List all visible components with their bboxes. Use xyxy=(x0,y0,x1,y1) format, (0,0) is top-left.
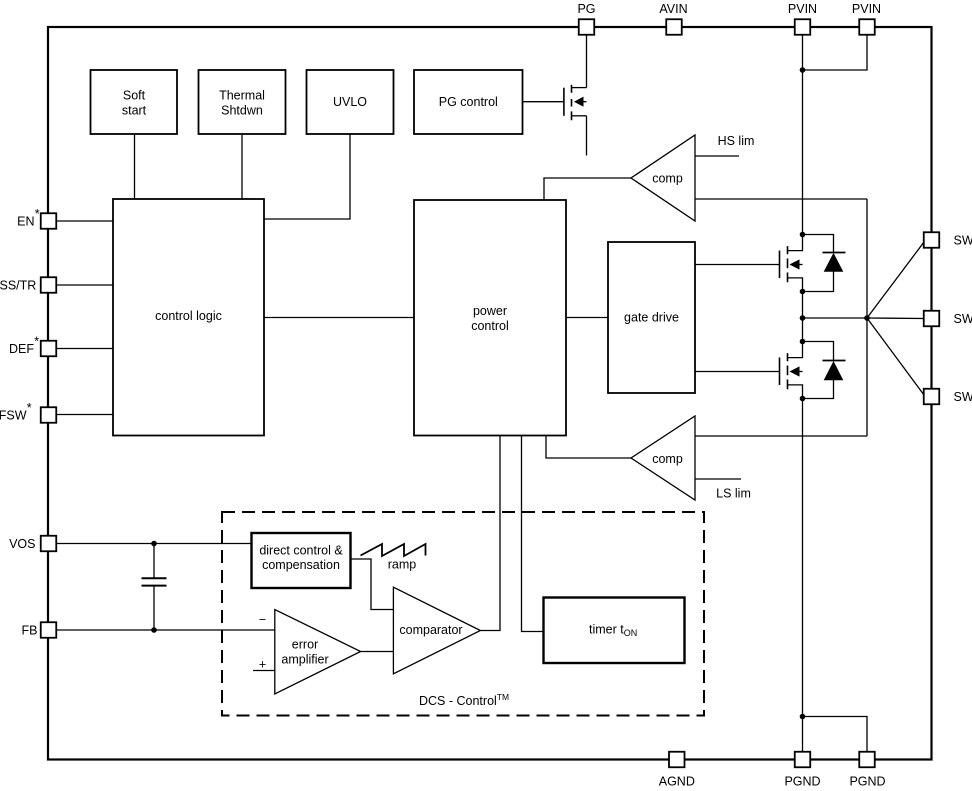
wire SW sense vertical xyxy=(866,199,868,436)
svg-text:EN: EN xyxy=(17,215,34,229)
svg-text:PGND: PGND xyxy=(784,775,820,789)
svg-text:LS lim: LS lim xyxy=(716,487,751,501)
pin PGND second xyxy=(859,752,875,768)
wire HS comp input from SW sense xyxy=(695,198,867,200)
junction Q2 drain xyxy=(800,232,806,238)
wire error amplifier output to comparator xyxy=(361,651,394,653)
wire switch node column xyxy=(802,292,804,342)
pin SS/TR xyxy=(41,277,57,293)
pin PVIN second xyxy=(859,19,875,35)
svg-text:FB: FB xyxy=(22,624,38,638)
svg-text:*: * xyxy=(35,207,40,221)
junction Q3 source xyxy=(800,396,806,402)
svg-text:SW: SW xyxy=(954,312,972,326)
svg-text:*: * xyxy=(34,335,39,349)
block UVLO xyxy=(307,70,394,134)
transistor Q1 PG MOSFET xyxy=(564,85,587,120)
transistor Q2 HS MOSFET xyxy=(780,235,803,292)
pin SW2 xyxy=(924,311,940,327)
wire EN pin to control logic xyxy=(56,220,113,222)
junction FB capacitor node xyxy=(151,627,157,633)
wire LS comp input from SW sense xyxy=(695,435,867,437)
wire PG control to Q1 gate xyxy=(523,101,564,103)
wire comparator output to power control xyxy=(480,436,500,631)
wire Q3 source to PGND xyxy=(802,399,804,752)
junction VOS capacitor node xyxy=(151,541,157,547)
svg-text:control: control xyxy=(471,319,509,333)
svg-text:PVIN: PVIN xyxy=(788,2,817,16)
wire Soft start to control logic xyxy=(134,135,136,199)
junction SW fan node xyxy=(864,315,870,321)
svg-text:FSW: FSW xyxy=(0,409,27,423)
junction PVIN net xyxy=(800,67,806,73)
wire HS comp output to power control xyxy=(544,178,631,200)
svg-text:PG control: PG control xyxy=(439,95,498,109)
DCS-Control dashed boundary xyxy=(222,512,704,716)
wire fan to SW3 xyxy=(867,318,924,395)
svg-text:+: + xyxy=(259,658,266,672)
junction Q3 drain xyxy=(800,339,806,345)
junction PGND net xyxy=(800,714,806,720)
pin PVIN xyxy=(795,19,811,35)
pin SW1 xyxy=(924,232,940,248)
wire control logic to power control xyxy=(264,317,414,319)
op-amp comparator xyxy=(393,587,480,674)
op-amp comp HS current limit xyxy=(631,135,695,221)
svg-text:AVIN: AVIN xyxy=(659,2,687,16)
wire switch node to SW fan xyxy=(803,317,868,319)
wire PGND branch to PGND2 xyxy=(803,717,868,752)
op-amp comp LS current limit xyxy=(631,416,695,500)
svg-text:comp: comp xyxy=(652,452,683,466)
svg-text:SS/TR: SS/TR xyxy=(0,279,36,293)
pin FB xyxy=(41,622,57,638)
pin FSW xyxy=(41,407,57,423)
svg-text:AGND: AGND xyxy=(659,775,695,789)
capacitor C1 between VOS and FB nets xyxy=(153,544,155,579)
svg-text:PGND: PGND xyxy=(849,775,885,789)
svg-text:DEF: DEF xyxy=(9,342,34,356)
svg-text:compensation: compensation xyxy=(262,558,340,572)
wire gate drive to Q3 gate xyxy=(695,371,780,373)
block power control xyxy=(414,200,566,436)
diode D3 body diode LS xyxy=(803,342,846,399)
wire fan to SW2 xyxy=(867,317,924,320)
wire FSW pin to control logic xyxy=(56,414,113,416)
svg-text:amplifier: amplifier xyxy=(281,653,328,667)
svg-text:UVLO: UVLO xyxy=(333,95,367,109)
wire UVLO to control logic xyxy=(264,134,350,219)
wire LS lim stub xyxy=(695,478,741,480)
wire HS lim stub xyxy=(695,155,739,157)
wire direct control output to comparator xyxy=(351,559,394,610)
wire PG pin to Q1 drain xyxy=(586,35,588,88)
svg-text:*: * xyxy=(27,401,32,415)
svg-text:DCS - ControlTM: DCS - ControlTM xyxy=(419,692,509,708)
svg-text:SW: SW xyxy=(954,234,972,248)
wire SS/TR pin to control logic xyxy=(56,284,113,286)
wire FB pin to error amplifier xyxy=(56,629,275,631)
svg-text:Shtdwn: Shtdwn xyxy=(221,104,263,118)
ramp sawtooth symbol xyxy=(361,544,426,556)
svg-text:comparator: comparator xyxy=(399,623,462,637)
pin DEF xyxy=(41,341,57,357)
svg-text:error: error xyxy=(292,638,318,652)
diode D2 body diode HS xyxy=(803,235,846,292)
block Thermal Shtdwn xyxy=(199,70,286,134)
svg-text:PVIN: PVIN xyxy=(852,2,881,16)
wire VOS pin to direct control block xyxy=(56,543,252,545)
pin EN xyxy=(41,213,57,229)
wire PVIN2 pin to PVIN net xyxy=(803,35,868,70)
svg-text:gate drive: gate drive xyxy=(624,311,679,325)
svg-text:SW: SW xyxy=(954,390,972,404)
block Soft start xyxy=(91,70,178,134)
pin PGND xyxy=(795,752,811,768)
block PG control xyxy=(414,70,523,134)
junction Q2 source xyxy=(800,289,806,295)
svg-text:VOS: VOS xyxy=(9,537,35,551)
svg-text:Thermal: Thermal xyxy=(219,89,265,103)
pin SW3 xyxy=(924,389,940,405)
block direct control and compensation xyxy=(252,533,351,588)
svg-text:comp: comp xyxy=(652,172,683,186)
wire power control to gate drive xyxy=(566,317,608,319)
svg-text:ramp: ramp xyxy=(388,558,417,572)
pin VOS xyxy=(41,536,57,552)
svg-text:control logic: control logic xyxy=(155,309,222,323)
wire DEF pin to control logic xyxy=(56,348,113,350)
svg-text:PG: PG xyxy=(577,2,595,16)
svg-text:−: − xyxy=(259,613,266,627)
wire error amplifier plus input stub xyxy=(253,670,275,672)
svg-text:HS lim: HS lim xyxy=(718,134,755,148)
wire LS comp output to power control xyxy=(546,436,631,459)
op-amp error amplifier xyxy=(275,610,361,695)
wire PVIN net vertical to Q2 drain xyxy=(802,35,804,235)
block timer tON xyxy=(544,598,685,664)
wire Thermal Shtdwn to control logic xyxy=(241,135,243,199)
wire Q1 source stub xyxy=(586,116,588,156)
pin PG xyxy=(579,19,595,35)
svg-text:power: power xyxy=(473,304,507,318)
wire fan to SW1 xyxy=(867,242,924,318)
transistor Q3 LS MOSFET xyxy=(780,342,803,399)
svg-text:direct control &: direct control & xyxy=(259,544,343,558)
wire power control to timer xyxy=(522,436,544,632)
junction switch node xyxy=(800,315,806,321)
wire gate drive to Q2 gate xyxy=(695,264,780,266)
svg-text:start: start xyxy=(122,104,147,118)
block control logic xyxy=(113,199,264,436)
block gate drive xyxy=(608,242,695,393)
pin AGND xyxy=(669,752,685,768)
pin AVIN xyxy=(666,19,682,35)
svg-text:Soft: Soft xyxy=(123,89,146,103)
